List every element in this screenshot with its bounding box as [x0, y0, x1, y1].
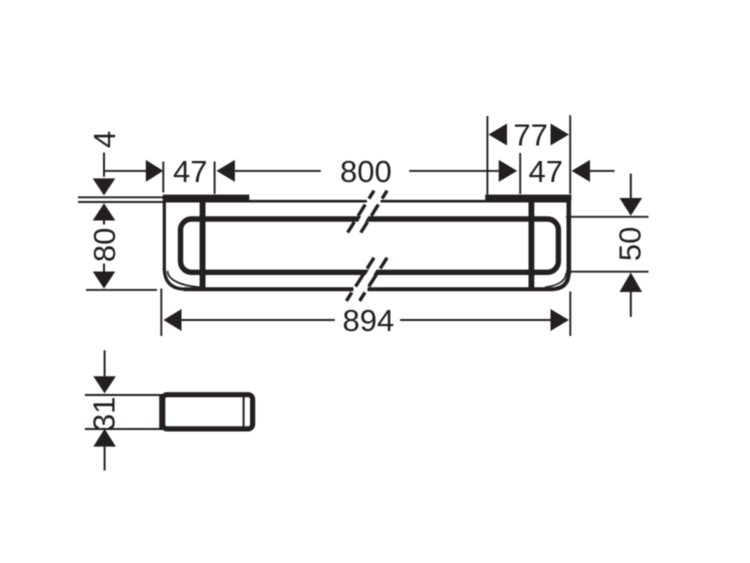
- dimension 50: upper extension line: [566, 216, 649, 218]
- dimension 77: right arrow (right-pointing): [551, 124, 570, 146]
- dimension 50: lower extension line: [566, 271, 649, 273]
- dimension 31: upper tail: [104, 350, 106, 376]
- dimension 47 left: left arrow (right-pointing): [146, 160, 163, 182]
- dimension 50: lower tail: [630, 292, 632, 317]
- break slash top-right: [361, 191, 387, 233]
- break slash top-left: [348, 191, 374, 233]
- left post: [200, 197, 206, 290]
- side view: end-cap seam line: [243, 396, 245, 428]
- rail front view: bottom-right rounded corner: [551, 272, 569, 289]
- dimension 894: right arrow (right-pointing): [551, 309, 569, 331]
- dimension 50: lower arrow (up): [620, 273, 643, 293]
- shared arrow (left-pointing) at x=216: [217, 160, 235, 182]
- dimension 50: upper tail: [630, 174, 632, 198]
- left mounting plate: [163, 195, 250, 200]
- side view: bar profile rectangle: [163, 395, 253, 429]
- dimension 77: left extension line: [486, 116, 488, 195]
- dimension 80: lower arrow (down): [93, 272, 116, 289]
- rail front view: bottom edge line: [184, 287, 553, 291]
- dimension 80: leader under upper arrow: [103, 221, 105, 225]
- svg-text:31: 31: [87, 397, 122, 431]
- towel bar (inner rounded rectangle): [181, 219, 559, 272]
- dimension 4: leader line above: [103, 153, 105, 177]
- break slash bottom-right: [360, 258, 388, 301]
- dimension 47 left: left extension line: [162, 162, 164, 193]
- rail front view: left edge: [163, 196, 166, 270]
- dimension 4: lower extension line: [78, 201, 163, 203]
- rail front view: inner corner line bottom-right: [545, 273, 566, 287]
- dimension 77: right extension line (shared with 47): [569, 115, 571, 194]
- dimension 80: leader above lower arrow: [103, 264, 105, 272]
- right mounting plate: [485, 195, 571, 201]
- dimension 47 right: right arrow (left-pointing): [572, 160, 590, 182]
- rail front view: top edge line: [163, 200, 570, 203]
- svg-text:800: 800: [340, 154, 392, 189]
- break slash bottom-left: [346, 258, 374, 301]
- dimension 31: upper arrow (down): [93, 376, 116, 393]
- dimension 800/47: shared extension line: [519, 153, 521, 194]
- rail front view: bottom-left rounded corner: [164, 268, 186, 289]
- svg-text:47: 47: [173, 154, 207, 189]
- dimension 31: lower arrow (up): [93, 429, 116, 447]
- dimension 31: upper extension line: [85, 394, 160, 396]
- dimension 894: left arrow (left-pointing): [164, 309, 182, 331]
- rail front view: right edge: [566, 198, 571, 274]
- dimension 31: lower extension line: [85, 428, 160, 430]
- right post: [529, 197, 535, 290]
- dimension 894: left line segment: [182, 319, 335, 321]
- svg-text:47: 47: [529, 154, 563, 189]
- dimension 50: upper arrow (down): [620, 198, 643, 216]
- dimension 47 right: tail line: [590, 170, 615, 172]
- dimension 47 left: tail line: [104, 170, 146, 172]
- side view: extra-thick left edge: [159, 394, 165, 430]
- svg-text:4: 4: [87, 131, 122, 148]
- dimension 894: left extension line: [160, 289, 162, 337]
- dimension 894: right extension line: [569, 292, 571, 337]
- rail front view: inner corner line bottom-left: [168, 271, 203, 288]
- svg-text:50: 50: [612, 227, 647, 261]
- svg-text:80: 80: [87, 228, 122, 262]
- dimension 31: lower tail: [104, 447, 106, 471]
- svg-text:77: 77: [513, 118, 547, 153]
- break gap top (white parallelogram): [351, 189, 385, 235]
- dimension 80: bottom extension line: [86, 289, 157, 291]
- dimension 4: upper extension line: [78, 196, 163, 198]
- dimension 894: right line segment: [400, 319, 550, 321]
- dimension 77: left arrow (left-pointing): [489, 124, 508, 146]
- break gap bottom (white parallelogram): [349, 256, 384, 303]
- dimension 800: left line segment: [235, 170, 321, 172]
- svg-text:894: 894: [343, 303, 395, 338]
- dimension 80: upper arrow (up): [93, 203, 116, 220]
- dimension 47 left: right extension line: [214, 162, 216, 195]
- dimension 800: right line segment: [409, 170, 499, 172]
- dimension 4: upper arrow (down): [93, 178, 116, 195]
- shared arrow (right-pointing) at x=517: [499, 160, 518, 182]
